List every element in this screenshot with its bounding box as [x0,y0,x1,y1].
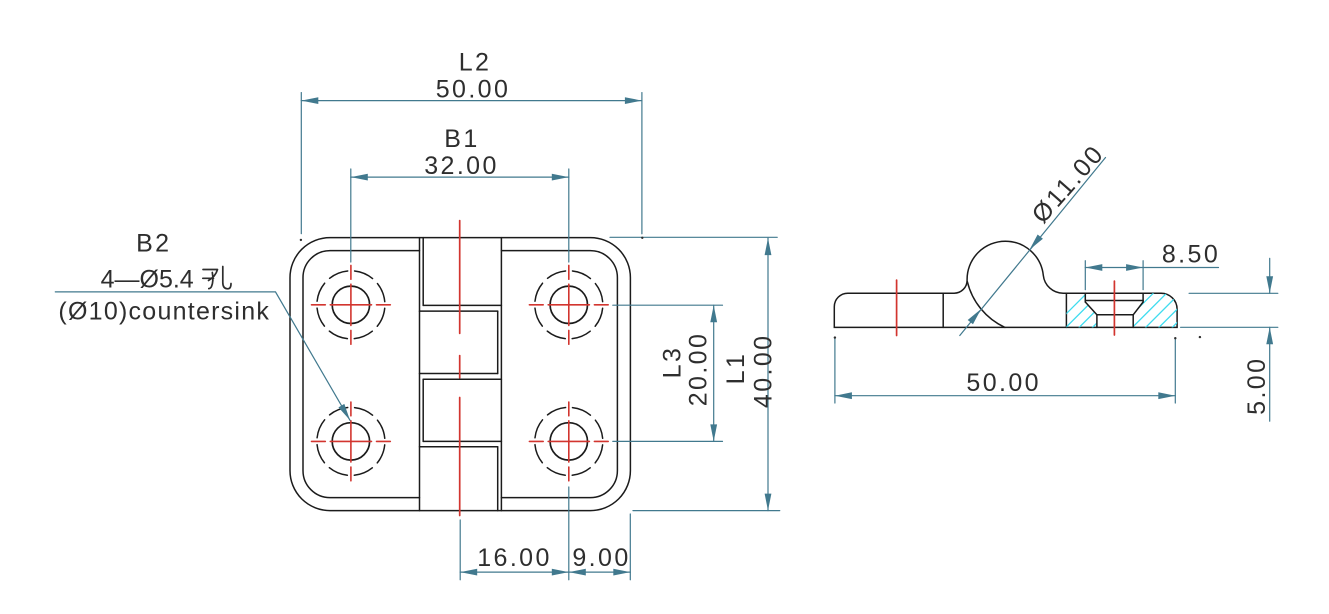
dimension L1 extension lines [610,236,777,238]
50.00 arrows [835,392,852,399]
svg-text:20.00: 20.00 [685,332,713,407]
dimension 50.00 extension lines (side view) [834,338,836,403]
knuckle joint line S1 bottom [423,304,501,306]
svg-text:L2: L2 [459,49,492,77]
front view outer outline [290,238,630,511]
dimension L3 line [713,305,715,441]
hole bottom-right crosshair centerlines [529,402,608,481]
dimension 16.00/9.00 extension lines [459,520,461,580]
dimension 16.00/9.00 line [460,571,630,573]
9.00 arrows [569,569,586,576]
knuckle joint line S2 top [420,310,498,312]
dimension L3 extension lines [613,304,723,306]
svg-text:B1: B1 [444,125,479,153]
8.50 arrows [1085,264,1102,271]
dimension B1 extension lines [350,169,352,262]
side view left hole centerline (red) [896,280,898,335]
hole top-right: solid circle [550,286,587,323]
CJK glyph hole (drawn) [203,267,231,289]
svg-text:50.00: 50.00 [436,75,511,103]
B2 leader arrow [338,404,352,422]
hole bottom-right: solid circle [550,423,587,460]
dimension 8.50 extension lines [1084,261,1086,290]
svg-text:L3: L3 [659,346,687,379]
side view knuckle lower arc [967,282,1005,328]
svg-text:50.00: 50.00 [966,369,1041,397]
knuckle S4 right edge [497,447,499,511]
knuckle S1 left edge [422,238,424,306]
side view outline [834,241,1177,327]
hole bottom-left crosshair centerlines [312,402,391,481]
leader B2 [55,292,350,420]
svg-text:Ø11.00: Ø11.00 [1026,139,1110,228]
dimension L2 extension lines [300,93,302,234]
cyan section hatching right region [1040,280,1233,340]
hole bottom-left: countersink dashed circle [317,407,385,475]
hole top-left: solid circle [332,286,369,323]
knuckle S3 left edge [422,379,424,441]
dimension 5.00 line [1269,258,1271,293]
countersink hole section profile [1085,293,1143,327]
svg-text:8.50: 8.50 [1162,240,1220,268]
svg-text:(Ø10)countersink: (Ø10)countersink [58,298,270,326]
front view inner offset outline right leaf [501,251,617,498]
hole bottom-right: countersink dashed circle [535,407,603,475]
L1 arrows [765,238,772,255]
side view leaf edge line [942,293,944,327]
side view section boundary [1065,293,1067,327]
barrel centerline (red) [459,221,461,516]
dimension L1 line [767,238,769,511]
diameter 11.00 arrows [1027,234,1043,251]
L2 arrows [301,97,318,104]
svg-text:5.00: 5.00 [1243,357,1271,415]
arrowheads (teal) [301,97,1273,575]
dimension 50.00 line [835,395,1175,397]
dimension B1 line [351,176,569,178]
front view inner offset outline left leaf [303,251,420,498]
dimension 8.50 line with tail [1085,267,1218,269]
knuckle joint line S4 top [420,446,498,448]
svg-text:L1: L1 [722,352,750,385]
dimension 5.00 extension lines [1189,292,1278,294]
5.00 arrows (external) [1266,276,1273,293]
hole top-right: countersink dashed circle [535,271,603,339]
B1 arrows [351,174,368,181]
defpoint dots [300,237,1201,340]
knuckle joint line S2 bottom [420,373,498,375]
svg-text:4—Ø5.4: 4—Ø5.4 [101,265,194,293]
svg-text:9.00: 9.00 [572,544,630,572]
hole top-left: countersink dashed circle [317,271,385,339]
hole crosshair centerlines (red) [312,265,609,480]
hole top-right crosshair centerlines [529,265,608,344]
leader diameter 11.00 [960,158,1106,336]
side view countersink centerline (red) [1113,281,1115,335]
svg-text:32.00: 32.00 [424,152,499,180]
svg-text:16.00: 16.00 [477,544,552,572]
dimension L2 line [301,100,642,102]
L3 arrows [710,305,717,322]
16.00 arrows [460,569,477,576]
knuckle S2 right edge [497,311,499,373]
svg-text:B2: B2 [136,230,171,258]
knuckle joint line S3 bottom [423,440,501,442]
hinge barrel right leaf edge [500,238,502,511]
cyan section hatching left region [1040,280,1233,340]
svg-text:40.00: 40.00 [749,334,777,409]
hinge barrel left leaf edge [419,238,421,511]
knuckle joint line S3 top [423,378,501,380]
hole bottom-left: solid circle [332,423,369,460]
